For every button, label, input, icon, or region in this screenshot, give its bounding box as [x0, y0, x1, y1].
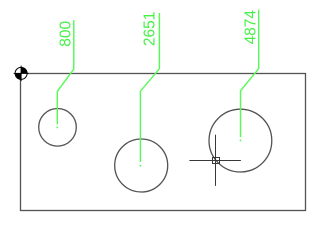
svg-text:4874: 4874	[242, 10, 259, 45]
svg-text:2651: 2651	[141, 12, 158, 46]
svg-text:800: 800	[58, 20, 75, 46]
